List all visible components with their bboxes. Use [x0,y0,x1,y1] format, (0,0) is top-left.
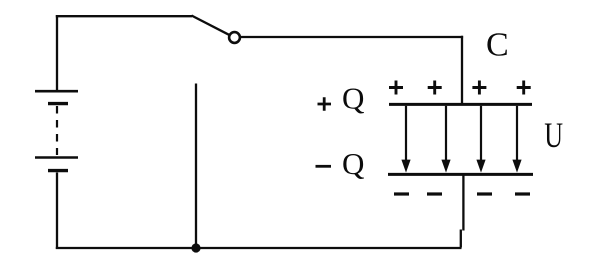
label -Q minus sign [316,165,332,168]
battery B1 long plate (top cell +) [35,90,78,93]
plus charge 4 on top plate [517,81,531,95]
battery dashed middle (omitted cells) [56,106,58,155]
capacitor C bottom plate [388,173,533,176]
svg-text:C: C [486,27,509,64]
wire middle vertical branch [195,84,197,245]
field arrow 1 [401,106,410,173]
plus charge 2 on top plate [428,81,442,95]
wire top rail [56,15,192,17]
svg-text:U: U [544,115,563,155]
minus charge 4 on bottom plate [515,192,530,195]
switch S1 contact circle [229,32,240,43]
minus charge 3 on bottom plate [477,192,492,195]
wire battery - down to bottom rail [56,173,58,250]
minus charge 2 on bottom plate [427,192,442,195]
battery B1 short plate (top cell -) [48,102,68,105]
svg-text:Q: Q [342,81,364,116]
capacitor C top plate [389,103,532,106]
field arrow 4 [512,106,521,173]
battery B1 short plate (bottom cell -) [48,169,68,172]
plus charge 3 on top plate [472,81,486,95]
switch S1 blade [192,16,230,35]
plus charge 1 on top plate [389,81,403,95]
wire capacitor bottom plate down to jog [462,175,464,231]
wire bottom rail [56,247,462,249]
wire top-right vertical down to capacitor top plate [461,36,463,104]
wire switch to top-right corner [241,36,464,38]
field arrow 2 [441,106,450,173]
minus charge 1 on bottom plate [394,192,409,195]
wire bottom-right jog vertical [460,230,462,248]
wire top-left vertical (battery + to top rail) [56,15,58,91]
node junction dot [191,243,200,252]
field arrow 3 [476,106,485,173]
svg-text:Q: Q [342,146,364,181]
battery B1 long plate (bottom cell +) [35,156,78,159]
label +Q plus sign [318,97,332,110]
